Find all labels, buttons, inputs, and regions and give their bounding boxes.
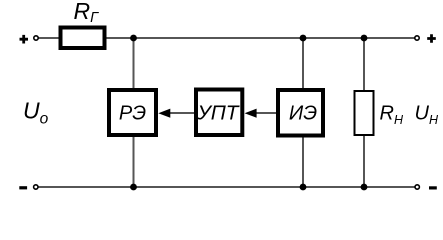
wire vertical ИЭ bottom xyxy=(302,137,304,187)
wire vertical ИЭ top xyxy=(302,38,304,88)
svg-text:РЭ: РЭ xyxy=(119,103,146,125)
arrowhead into РЭ xyxy=(158,109,170,118)
block ИЭ (measuring element) box xyxy=(278,90,323,136)
wire УПТ to РЭ xyxy=(169,112,194,114)
wire vertical РЭ bottom xyxy=(133,137,135,187)
resistor Rг (series ballast resistor body) xyxy=(61,28,105,49)
wire bottom bus xyxy=(38,186,415,188)
block РЭ (regulating element) box xyxy=(109,90,156,135)
label + (top right polarity) xyxy=(427,34,436,43)
label - (bottom right polarity) xyxy=(429,186,437,189)
wire top bus left segment (terminal to Rг) xyxy=(38,37,59,39)
wire ИЭ to УПТ xyxy=(255,112,276,114)
label + (top left polarity) xyxy=(20,35,29,44)
svg-text:УПТ: УПТ xyxy=(196,102,240,124)
node input terminal + (open circle) xyxy=(34,36,38,40)
node output terminal + (open circle) xyxy=(415,36,419,40)
wire vertical Rн bottom xyxy=(363,136,365,187)
node junction bottom РЭ xyxy=(130,184,137,191)
node junction bottom ИЭ xyxy=(300,184,307,191)
node input terminal - (open circle) xyxy=(34,185,38,189)
node junction top ИЭ xyxy=(300,35,307,42)
wire vertical РЭ top xyxy=(133,38,135,88)
wire vertical Rн top xyxy=(363,38,365,90)
svg-text:ИЭ: ИЭ xyxy=(289,102,317,124)
arrowhead into УПТ xyxy=(245,109,257,118)
node junction top РЭ xyxy=(130,35,137,42)
label - (bottom left polarity) xyxy=(19,186,27,189)
block УПТ (dc amplifier) box xyxy=(196,90,242,136)
node junction top Rн xyxy=(361,35,368,42)
node junction bottom Rн xyxy=(361,184,368,191)
wire top bus right segment (Rг to + output terminal) xyxy=(107,37,416,39)
resistor Rн (load resistor body) xyxy=(355,91,374,135)
node output terminal - (open circle) xyxy=(415,185,419,189)
